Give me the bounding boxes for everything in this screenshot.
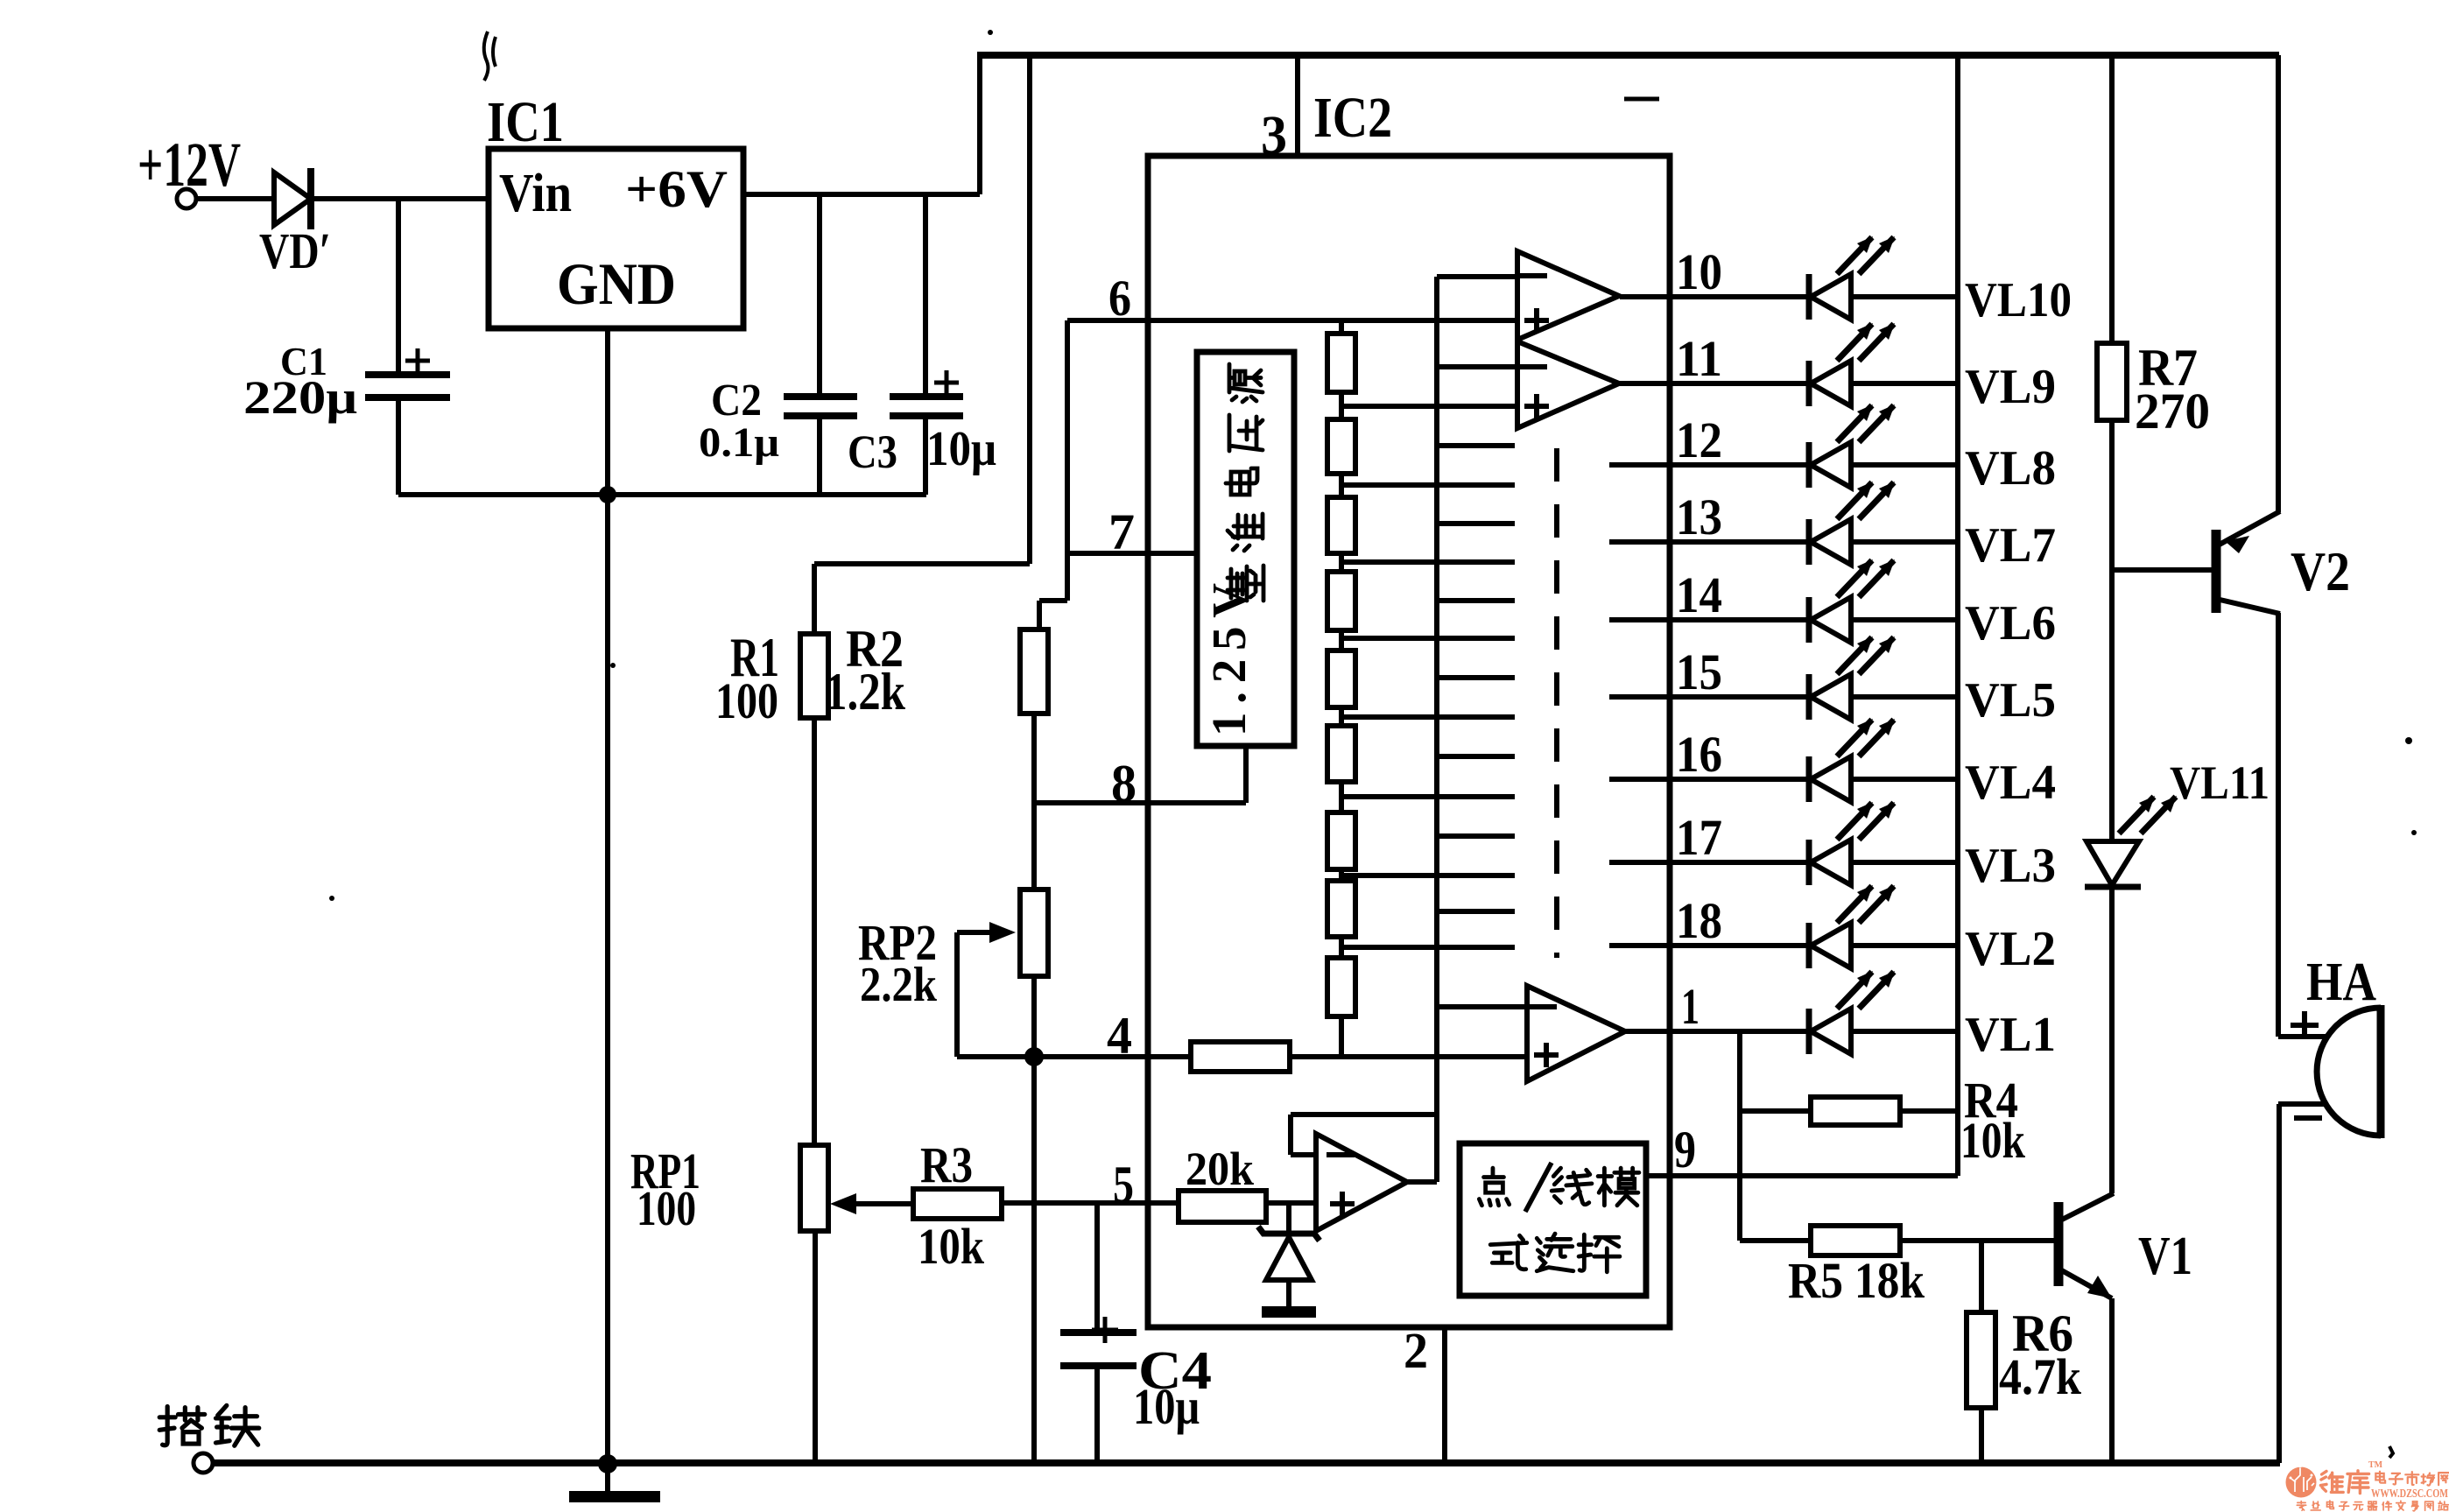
svg-text:VL9: VL9 <box>1965 360 2056 414</box>
svg-text:2: 2 <box>1404 1322 1428 1379</box>
wire hidden comparator minus stub 1 <box>1437 443 1515 448</box>
watermark char2 网 <box>2425 1501 2433 1510</box>
speaker HA body <box>2317 1008 2381 1136</box>
svg-text:17: 17 <box>1676 809 1722 866</box>
mode box slash <box>1525 1163 1552 1212</box>
wire pin 4 to bottom comparator + <box>1290 1054 1527 1059</box>
svg-text:13: 13 <box>1676 489 1722 545</box>
svg-text:C2: C2 <box>711 376 762 425</box>
zener diode triangle <box>1266 1237 1312 1280</box>
svg-text:HA: HA <box>2306 953 2376 1012</box>
watermark char 库 <box>2347 1471 2369 1494</box>
HA plus sign <box>2291 1011 2319 1039</box>
svg-text:WWW.DZSC.COM: WWW.DZSC.COM <box>2371 1487 2448 1501</box>
svg-text:3: 3 <box>1261 106 1287 165</box>
block 1.25V reference source <box>1197 352 1294 746</box>
watermark logo dots <box>2298 1465 2301 1467</box>
wire LED VL6 anode to bus <box>1851 617 1958 622</box>
wire ladder tap 4 <box>1341 636 1515 641</box>
op-amp comparator U-pin11 <box>1517 341 1619 428</box>
svg-text:18: 18 <box>1676 892 1722 949</box>
wire LED VL10 anode to bus <box>1851 294 1958 299</box>
wire LED VL5 anode to bus <box>1851 694 1958 700</box>
resistor ladder segment 5 <box>1327 651 1355 707</box>
resistor R3 <box>913 1189 1002 1219</box>
C1 polarity + <box>405 348 430 373</box>
resistor ladder segment 7 <box>1327 812 1355 869</box>
wire LED VL3 anode to bus <box>1851 860 1958 865</box>
svg-text:IC1: IC1 <box>487 90 564 154</box>
wire hidden comparator minus stub 5 <box>1437 754 1515 759</box>
svg-text:+6V: +6V <box>625 160 728 218</box>
svg-text:16: 16 <box>1676 726 1722 783</box>
wire ladder link 1 <box>1339 392 1344 419</box>
LED VL6 triangle <box>1811 597 1851 643</box>
wire pin 18 to LED VL2 <box>1609 943 1809 948</box>
LED VL1 triangle <box>1811 1009 1851 1054</box>
buffer plus sign <box>1330 1192 1355 1216</box>
LED VL10 cathode bar <box>1806 274 1812 320</box>
svg-text:TM: TM <box>2368 1460 2383 1470</box>
wire pin 14 to LED VL6 <box>1609 617 1809 622</box>
comparator U-pin11 minus sign <box>1519 364 1547 369</box>
svg-text:10k: 10k <box>1960 1112 2026 1169</box>
transistor V2 base bar <box>2212 530 2221 613</box>
svg-text:VL3: VL3 <box>1965 839 2056 893</box>
wire hidden comparator minus stub 6 <box>1437 833 1515 839</box>
wire top rail to V2 emitter <box>2276 55 2281 512</box>
RP1 wiper arrowhead <box>830 1193 856 1214</box>
wire ladder link 6 <box>1339 782 1344 812</box>
svg-text:Vin: Vin <box>499 164 572 223</box>
svg-text:VL5: VL5 <box>1965 673 2056 728</box>
resistor R1 <box>800 634 828 718</box>
op-amp comparator U-pin1 <box>1527 986 1625 1081</box>
wire hidden comparator minus stub 4 <box>1437 675 1515 680</box>
reference box char 电 <box>1226 468 1257 495</box>
wire ladder link 4 <box>1339 630 1344 651</box>
LED VL7 cathode bar <box>1806 519 1812 565</box>
svg-text:20k: 20k <box>1186 1143 1254 1195</box>
diode VD triangle <box>274 172 311 225</box>
svg-text:VL8: VL8 <box>1965 441 2056 496</box>
resistor ladder segment 8 <box>1327 881 1355 937</box>
wire R7 to VL11 <box>2109 420 2115 841</box>
wire ladder link 2 <box>1339 474 1344 497</box>
scan speck <box>610 663 616 668</box>
wire reference box bottom lead <box>1243 746 1249 803</box>
wire RP1 bottom to rail <box>813 1231 818 1464</box>
resistor R6 <box>1967 1312 1995 1408</box>
comparator U-pin1 plus sign <box>1534 1043 1559 1067</box>
svg-text:4.7k: 4.7k <box>1999 1348 2082 1405</box>
op-amp comparator U-pin10 <box>1517 251 1619 340</box>
watermark logo circle <box>2286 1467 2317 1498</box>
capacitor C1 bottom plate <box>365 394 450 401</box>
wire rail to R7 <box>2109 55 2115 343</box>
LED VL4 triangle <box>1811 756 1851 802</box>
transistor V1 base bar <box>2054 1202 2064 1286</box>
LED VL9 cathode bar <box>1806 361 1812 406</box>
V1 emitter arrowhead <box>2087 1276 2112 1298</box>
wire ladder tap 2 <box>1341 482 1515 488</box>
svg-text:10μ: 10μ <box>926 422 996 476</box>
scan squiggle artifact <box>484 32 496 81</box>
watermark char2 子 <box>2340 1502 2349 1510</box>
wire C3 bottom lead <box>923 419 928 495</box>
wire zener top lead <box>1286 1203 1291 1233</box>
comparator U-pin11 plus sign <box>1524 394 1549 418</box>
HA minus sign <box>2294 1115 2322 1121</box>
svg-text:VL11: VL11 <box>2170 756 2270 809</box>
watermark char2 易 <box>2411 1501 2418 1511</box>
wire LED VL9 anode to bus <box>1851 381 1958 386</box>
LED VL7 triangle <box>1811 519 1851 565</box>
resistor 20k internal <box>1179 1191 1266 1222</box>
svg-text:VL7: VL7 <box>1965 518 2056 573</box>
wire RP2 bottom lead <box>1031 976 1037 1057</box>
watermark char2 元 <box>2354 1502 2363 1510</box>
reference box char 准 <box>1228 514 1263 551</box>
wire pin 11 to LED VL9 <box>1620 381 1809 386</box>
resistor ladder segment 4 <box>1327 572 1355 630</box>
wire ladder link 8 <box>1339 937 1344 958</box>
wire pin6 drop <box>1065 320 1070 601</box>
wire buffer output bus <box>1434 277 1439 1182</box>
stray tick mark <box>1624 97 1659 102</box>
wire pin 3 from rail <box>1295 55 1300 156</box>
resistor ladder segment 3 <box>1327 497 1355 553</box>
wire pin 6 to comparator ladder top <box>1067 318 1517 323</box>
wire R2 top lead <box>1037 601 1042 629</box>
terminal chassis ground <box>194 1453 213 1473</box>
potentiometer RP2 body <box>1020 890 1048 976</box>
transistor V1 emitter lead <box>2058 1269 2112 1298</box>
resistor internal on pin4 line <box>1191 1042 1290 1072</box>
resistor R4 <box>1811 1097 1900 1125</box>
reference box char 基 <box>1228 566 1263 601</box>
resistor ladder segment 6 <box>1327 726 1355 782</box>
wire pin 12 to LED VL8 <box>1609 462 1809 468</box>
resistor ladder segment 2 <box>1327 419 1355 474</box>
svg-text:220μ: 220μ <box>243 371 357 424</box>
LED VL1 light arrows <box>1837 971 1895 1009</box>
wire ladder link 3 <box>1339 553 1344 572</box>
LED VL10 light arrows <box>1837 236 1895 274</box>
diode VD cathode bar <box>307 168 314 229</box>
op-amp IC2 block outline <box>1148 156 1670 1327</box>
wire pin 16 to LED VL4 <box>1609 777 1809 782</box>
watermark char 维 <box>2320 1471 2343 1492</box>
svg-text:8: 8 <box>1111 755 1137 812</box>
svg-text:5: 5 <box>1113 1156 1134 1213</box>
wire pin 7 to reference box <box>1070 551 1197 556</box>
wire ladder link 7 <box>1339 869 1344 881</box>
capacitor C4 top plate <box>1060 1329 1137 1336</box>
LED VL2 light arrows <box>1837 885 1895 923</box>
wire pin 10 to LED VL10 <box>1620 294 1809 299</box>
svg-text:4: 4 <box>1107 1007 1132 1065</box>
LED VL8 light arrows <box>1837 404 1895 442</box>
wire to R5 left <box>1740 1238 1811 1243</box>
svg-text:1: 1 <box>1681 978 1700 1035</box>
reference box char 源 <box>1229 364 1263 402</box>
wire C4 bottom lead <box>1094 1369 1100 1463</box>
wire pin 17 to LED VL3 <box>1609 860 1809 865</box>
svg-text:270: 270 <box>2135 383 2210 440</box>
wire VL11 to V1 collector <box>2109 887 2115 1193</box>
svg-text:VL2: VL2 <box>1965 922 2056 976</box>
capacitor C1 top plate <box>365 371 450 378</box>
scan speck <box>2405 737 2412 744</box>
svg-text:C3: C3 <box>848 425 897 478</box>
LED VL2 triangle <box>1811 923 1851 968</box>
wire hidden comparator minus stub 7 <box>1437 909 1515 914</box>
wire LED VL8 anode to bus <box>1851 462 1958 468</box>
wire LED VL1 anode to bus <box>1851 1029 1958 1034</box>
LED VL1 cathode bar <box>1806 1009 1812 1054</box>
wire C2 bottom lead <box>817 419 822 495</box>
scan speck <box>2389 1446 2393 1458</box>
wire ladder tap 5 <box>1341 714 1515 720</box>
svg-text:100: 100 <box>637 1182 696 1236</box>
watermark char2 电 <box>2327 1501 2334 1508</box>
LED VL5 triangle <box>1811 674 1851 720</box>
wire C1 top lead <box>396 199 401 374</box>
capacitor C4 bottom plate <box>1060 1362 1137 1369</box>
wire pin 9 to LED bus <box>1646 1173 1958 1178</box>
wire HA minus terminal <box>2278 1101 2326 1107</box>
LED VL3 light arrows <box>1837 802 1895 840</box>
wire pin 2 to ground rail <box>1442 1327 1447 1463</box>
mode box char 选 <box>1537 1234 1573 1271</box>
ground bar under zener <box>1262 1306 1316 1318</box>
watermark char 场 <box>2422 1473 2434 1486</box>
svg-text:VL4: VL4 <box>1965 756 2056 810</box>
svg-text:10μ: 10μ <box>1133 1378 1200 1435</box>
mode box char 式 <box>1490 1235 1527 1269</box>
svg-text:VL10: VL10 <box>1965 273 2072 327</box>
resistor R2 <box>1020 629 1048 714</box>
wire LED anode bus <box>1955 55 1960 1176</box>
svg-text:9: 9 <box>1674 1121 1696 1178</box>
svg-text:GND: GND <box>557 250 676 317</box>
wire R5 right to V1 base <box>1900 1238 2055 1243</box>
watermark char2 交 <box>2396 1501 2405 1510</box>
watermark char2 业 <box>2311 1501 2320 1510</box>
LED VL9 light arrows <box>1837 323 1895 361</box>
wire to R4 left <box>1740 1108 1811 1114</box>
wire C3 top lead <box>923 194 928 394</box>
svg-text:VL1: VL1 <box>1965 1008 2056 1062</box>
LED VL10 triangle <box>1811 274 1851 320</box>
transistor V1 collector lead <box>2058 1193 2114 1221</box>
mode box char 模 <box>1598 1168 1639 1206</box>
LED VL7 light arrows <box>1837 482 1895 519</box>
LED VL5 cathode bar <box>1806 674 1812 720</box>
wire ladder bottom lead <box>1339 1016 1344 1057</box>
capacitor C3 top plate <box>890 393 963 400</box>
svg-text:15: 15 <box>1676 643 1722 700</box>
scan speck <box>988 30 993 35</box>
potentiometer RP1 body <box>800 1145 828 1231</box>
watermark logo traces <box>2291 1468 2314 1492</box>
svg-text:2.2k: 2.2k <box>860 958 938 1012</box>
capacitor C2 bottom plate <box>784 412 857 419</box>
wire C1 bottom lead <box>396 401 401 495</box>
speaker HA flat bar <box>2377 1005 2385 1138</box>
wire LED VL4 anode to bus <box>1851 777 1958 782</box>
watermark char 电 <box>2375 1472 2385 1483</box>
wire ladder top lead <box>1339 320 1344 334</box>
svg-text:14: 14 <box>1676 566 1722 623</box>
svg-text:R5 18k: R5 18k <box>1788 1252 1925 1309</box>
mode box char 择 <box>1579 1234 1620 1272</box>
block dot/line mode select <box>1460 1143 1646 1296</box>
LED VL4 light arrows <box>1837 719 1895 756</box>
wire to R1 top <box>814 561 1030 566</box>
wire ladder tap 7 <box>1341 873 1515 878</box>
svg-text:10k: 10k <box>918 1218 985 1275</box>
C4 polarity + <box>1092 1317 1118 1343</box>
wire hidden comparator minus stub 3 <box>1437 598 1515 603</box>
LED VL4 cathode bar <box>1806 756 1812 802</box>
LED VL8 triangle <box>1811 442 1851 488</box>
wire HA minus down to rail <box>2277 1104 2282 1463</box>
wire top +6V rail <box>977 52 2279 59</box>
LED VL3 triangle <box>1811 840 1851 885</box>
resistor ladder segment 1 <box>1327 334 1355 392</box>
wire R6 top lead <box>1979 1241 1984 1312</box>
wire LED VL7 anode to bus <box>1851 539 1958 545</box>
LED VL11 triangle <box>2087 841 2139 885</box>
comparator U-pin10 plus sign <box>1524 308 1549 333</box>
svg-text:VL6: VL6 <box>1965 596 2056 651</box>
reference box char 压 <box>1229 415 1263 451</box>
RP2 wiper arrowhead <box>989 922 1016 943</box>
dashed line comparator ellipsis <box>1554 448 1559 958</box>
watermark char 网 <box>2438 1473 2449 1485</box>
wire RP1 wiper to R3 <box>839 1201 913 1206</box>
zener diode internal cathode bar <box>1258 1227 1320 1241</box>
svg-text:0.1μ: 0.1μ <box>699 419 779 466</box>
watermark char2 件 <box>2382 1501 2391 1510</box>
wire V1 emitter to rail <box>2109 1298 2115 1463</box>
V2 emitter arrowhead <box>2225 536 2249 553</box>
resistor R5 <box>1811 1226 1900 1255</box>
wire pin1 node down to R4 R5 <box>1737 1031 1742 1241</box>
wire comparator2 minus input <box>1437 364 1517 369</box>
junction IC1 GND with ground bus <box>599 486 616 503</box>
wire RP2 wiper <box>957 930 1005 935</box>
watermark char 市 <box>2405 1472 2418 1485</box>
wire pin4 node down to ground rail <box>1031 1057 1037 1463</box>
wire pin 1 to LED VL1 <box>1625 1029 1809 1034</box>
wire buffer output <box>1407 1179 1437 1185</box>
wire pin 8 <box>1034 800 1246 805</box>
wire rail down to R1 feed <box>1027 55 1032 564</box>
svg-text:6: 6 <box>1108 270 1131 327</box>
wire zener bottom lead <box>1286 1280 1291 1306</box>
comparator U-pin10 minus sign <box>1519 273 1547 278</box>
junction GND at bottom rail <box>598 1454 617 1473</box>
wire ladder tap 1 <box>1341 404 1517 409</box>
svg-text:V1: V1 <box>2138 1227 2192 1286</box>
wire +12V input to IC1 Vin <box>196 196 490 201</box>
wire C1-C2-C3 ground bus <box>398 492 926 497</box>
LED VL8 cathode bar <box>1806 442 1812 488</box>
wire stub to earth symbol <box>605 1464 610 1491</box>
transistor V2 collector lead <box>2216 599 2280 614</box>
svg-text:100: 100 <box>715 672 778 729</box>
svg-text:10: 10 <box>1676 243 1722 300</box>
wire ladder tap 8 <box>1341 945 1515 950</box>
wire R4 right to bus <box>1900 1108 1958 1114</box>
wire V2 base <box>2112 567 2216 573</box>
wire RP2 wiper down to pin4 <box>954 932 960 1057</box>
svg-text:R3: R3 <box>920 1136 973 1193</box>
wire ladder tap 6 <box>1341 794 1515 799</box>
comparator U-pin1 minus sign <box>1529 1004 1557 1009</box>
resistor R7 <box>2097 343 2127 420</box>
LED VL11 cathode bar <box>2085 884 2141 890</box>
capacitor C3 bottom plate <box>890 412 963 419</box>
LED VL5 light arrows <box>1837 636 1895 674</box>
mode box char 点 <box>1479 1168 1509 1206</box>
wire jog to R2 <box>1039 598 1067 603</box>
wire pin 4 left segment <box>957 1054 1191 1059</box>
wire V2 collector down to HA <box>2276 613 2281 1037</box>
svg-text:VD′: VD′ <box>259 222 331 279</box>
wire R6 bottom to rail <box>1979 1408 1984 1463</box>
LED VL9 triangle <box>1811 361 1851 406</box>
wire pin 13 to LED VL7 <box>1609 539 1809 545</box>
svg-text:12: 12 <box>1676 411 1722 468</box>
wire ladder tap 3 <box>1341 559 1515 565</box>
wire HA plus terminal <box>2278 1034 2326 1039</box>
wire C2 top lead <box>817 194 822 394</box>
wire IC1 GND down to bottom rail <box>605 328 610 1464</box>
label chassis-ground tie <box>215 1405 258 1445</box>
capacitor C2 top plate <box>784 393 857 400</box>
svg-text:IC2: IC2 <box>1313 86 1392 150</box>
wire R1 top lead <box>812 564 817 634</box>
mode box char 线 <box>1552 1168 1592 1205</box>
svg-text:V2: V2 <box>2291 540 2350 602</box>
wire bottom ground rail <box>213 1459 2280 1466</box>
wire pin 15 to LED VL5 <box>1609 694 1809 700</box>
svg-text:7: 7 <box>1108 503 1135 560</box>
LED VL2 cathode bar <box>1806 923 1812 968</box>
wire R1 to RP1 <box>812 718 817 1145</box>
op-amp buffer pin5 <box>1316 1134 1407 1231</box>
wire riser +6V to top rail <box>977 55 982 194</box>
svg-text:11: 11 <box>1676 330 1722 387</box>
wire buffer feedback top <box>1291 1112 1437 1117</box>
watermark char2 器 <box>2368 1501 2376 1510</box>
C3 polarity + <box>934 370 959 395</box>
wire hidden comparator minus stub 2 <box>1437 521 1515 526</box>
wire 20k to buffer + <box>1266 1200 1316 1206</box>
terminal +12V <box>177 189 196 208</box>
LED VL6 cathode bar <box>1806 597 1812 643</box>
resistor ladder segment 9 <box>1327 958 1355 1016</box>
IC1 regulator box <box>489 149 743 328</box>
wire buffer minus stub <box>1291 1152 1316 1157</box>
watermark char2 站 <box>2438 1501 2448 1510</box>
wire LED VL2 anode to bus <box>1851 943 1958 948</box>
svg-text:1.25V: 1.25V <box>1202 583 1256 736</box>
